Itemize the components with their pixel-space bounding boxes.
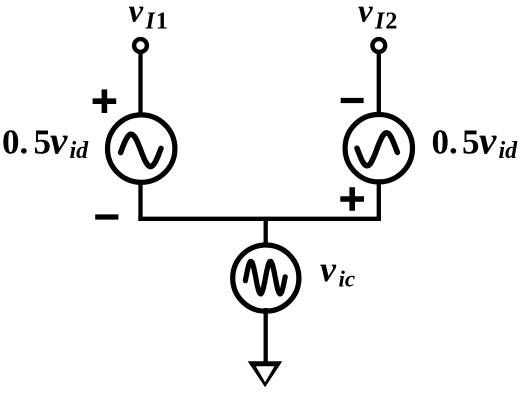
wire: bottom horizontal rail	[138, 217, 381, 221]
svg-text:I1: I1	[145, 9, 168, 35]
sine wave inside right source	[357, 133, 397, 166]
wire: from vic source down to ground	[264, 308, 268, 362]
svg-text:v: v	[129, 0, 144, 30]
ground symbol (open triangle)	[248, 361, 283, 387]
minus sign of right source	[341, 98, 364, 103]
svg-text:v: v	[320, 249, 337, 289]
terminal node vI1 (open circle)	[134, 39, 147, 52]
svg-text:v: v	[479, 120, 497, 163]
wire: left bottom vertical from source to rail	[138, 180, 142, 221]
svg-text:I2: I2	[374, 9, 397, 35]
svg-text:v: v	[50, 120, 68, 163]
wire: right bottom vertical from source to rail	[377, 180, 381, 221]
svg-text:5: 5	[462, 123, 480, 162]
svg-text:0.: 0.	[432, 123, 458, 162]
wire: middle stub from rail to vic source	[264, 219, 268, 248]
plus sign of right source	[340, 187, 364, 211]
svg-text:5: 5	[34, 123, 52, 162]
terminal node vI2 (open circle)	[372, 39, 385, 52]
wire: right top vertical from terminal vI2 to source	[377, 51, 381, 116]
voltage source 0.5vid left (circle)	[108, 115, 175, 182]
sine wave inside left source	[121, 134, 161, 166]
svg-text:ic: ic	[339, 267, 356, 292]
svg-text:0.: 0.	[2, 123, 28, 162]
voltage source 0.5vid right (circle)	[345, 115, 412, 182]
wire: left top vertical from terminal vI1 to source	[138, 51, 142, 116]
minus sign of left source	[95, 214, 118, 219]
svg-text:id: id	[499, 138, 519, 164]
svg-text:id: id	[70, 138, 90, 164]
svg-text:v: v	[358, 0, 373, 30]
plus sign of left source	[93, 89, 117, 113]
voltage source vic (circle)	[233, 245, 299, 311]
multicycle sine inside vic source	[245, 261, 285, 294]
